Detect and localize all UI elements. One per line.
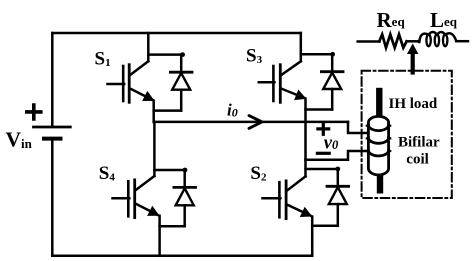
- svg-text:IH load: IH load: [389, 96, 438, 112]
- svg-text:coil: coil: [406, 151, 429, 167]
- svg-text:Bifilar: Bifilar: [398, 135, 440, 151]
